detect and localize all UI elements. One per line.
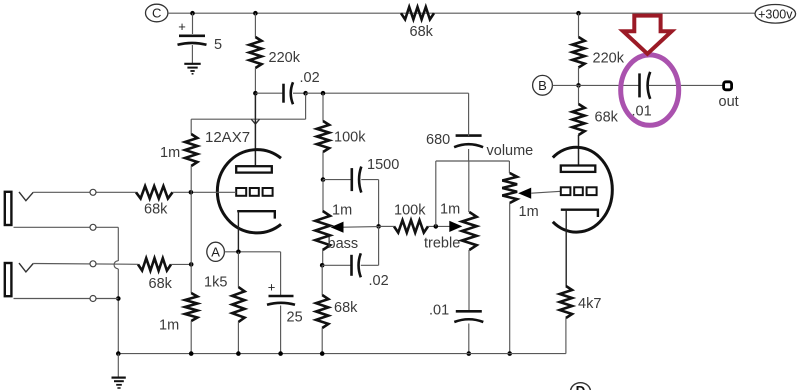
node B terminal xyxy=(533,75,553,95)
highlight arrow pointing at output cap xyxy=(623,16,672,54)
value label .02 xyxy=(300,70,320,86)
wire 1m R7 bottom lead xyxy=(190,321,192,354)
ground symbol upper-left xyxy=(184,64,200,74)
svg-text:1m: 1m xyxy=(440,202,460,218)
tube V1b plate xyxy=(561,166,596,172)
value label 100k xyxy=(334,130,366,146)
capacitor C5 .02 bass xyxy=(322,253,361,277)
capacitor C8 .01 output coupling xyxy=(640,72,651,99)
out terminal xyxy=(724,82,732,90)
wire 25uF top lead xyxy=(280,252,282,296)
jack J1 sleeve contact wire xyxy=(14,226,119,228)
wire cathode lead V1a xyxy=(237,211,239,252)
svg-text:680: 680 xyxy=(426,132,450,148)
value label 1m xyxy=(160,145,180,161)
wire bass pot top lead xyxy=(322,180,324,211)
svg-text:1m: 1m xyxy=(160,145,180,161)
wire 1k5 top lead xyxy=(237,252,239,287)
wire filter cap to ground xyxy=(191,45,193,63)
junction dot grid node ch1 xyxy=(189,190,194,195)
wire treble pot bottom lead xyxy=(468,250,470,311)
resistor R1 220k xyxy=(249,37,261,68)
jack J2 body xyxy=(5,263,12,296)
tube V1a envelope xyxy=(217,150,281,233)
value label .01 xyxy=(632,104,652,120)
wire cap output drop xyxy=(305,93,307,119)
svg-text:220k: 220k xyxy=(269,50,301,66)
svg-text:100k: 100k xyxy=(394,203,426,219)
resistor R5 220k plate xyxy=(572,37,584,68)
wire 100k slope bottom lead xyxy=(322,152,324,180)
svg-text:220k: 220k xyxy=(593,51,625,67)
svg-text:treble: treble xyxy=(424,236,460,252)
wire cap C2 output xyxy=(293,92,306,94)
value label 68k xyxy=(410,24,434,40)
label out xyxy=(719,94,739,110)
grid entry tick V1a xyxy=(251,119,259,124)
junction dot rail at 68k tail xyxy=(320,351,325,356)
junction dot ch2 node xyxy=(189,262,194,267)
wire tone feed to 680 cap corner xyxy=(306,92,469,94)
junction dot rail at sleeve bus xyxy=(116,351,121,356)
value label 1m xyxy=(332,203,352,219)
wire sleeve bus vertical upper xyxy=(117,227,119,261)
svg-text:4k7: 4k7 xyxy=(578,296,601,312)
wire 100k to treble wiper xyxy=(379,225,450,227)
capacitor C1 5uF xyxy=(178,19,207,45)
jack J2 tip contact xyxy=(19,263,33,272)
wire bass pot bottom lead xyxy=(322,250,324,265)
value label 1m xyxy=(519,204,539,220)
resistor R8 1k5 cathode xyxy=(232,287,244,322)
junction dot rail at 1m R7 xyxy=(189,351,194,356)
tube V1a plate xyxy=(236,166,272,172)
capacitor C6 680 treble cap xyxy=(454,136,483,148)
svg-text:bass: bass xyxy=(328,236,359,252)
wire treble pot top lead xyxy=(468,161,470,212)
value label .02 xyxy=(369,273,389,289)
jack J1 body xyxy=(5,192,12,225)
terminal circle J2 sleeve xyxy=(90,296,96,302)
wire plate lead V1b xyxy=(578,135,580,166)
junction dot rail at 1k5 xyxy=(236,351,241,356)
wire 4k7 bottom lead xyxy=(565,318,567,354)
wire ground stem lower-left xyxy=(117,354,119,377)
wire hop over channel-2 line xyxy=(114,261,118,269)
resistor R10 68k tail xyxy=(316,295,328,328)
capacitor C4 1500 treble xyxy=(323,167,361,193)
capacitor C7 .01 tone xyxy=(454,311,483,322)
wire bottom ground rail xyxy=(118,353,566,355)
svg-text:A: A xyxy=(211,244,220,259)
junction dot treble wiper node xyxy=(434,224,439,229)
wire .02 to riser xyxy=(361,226,379,265)
value label 100k xyxy=(394,203,426,219)
potentiometer VR3 1m volume xyxy=(502,173,517,203)
wire 68k ch2 to junction xyxy=(171,263,191,265)
power terminal +300v xyxy=(755,5,796,24)
value label .01 xyxy=(429,303,449,319)
junction dot top rail at 220k R1 xyxy=(253,11,258,16)
svg-text:B: B xyxy=(538,78,547,93)
svg-text:25: 25 xyxy=(287,310,303,326)
resistor R12 68k grid feed xyxy=(572,104,584,135)
value label 1500 xyxy=(367,157,399,173)
capacitor C2 .02 coupling xyxy=(255,82,293,104)
wire 25uF bottom lead xyxy=(280,306,282,355)
wire 1k5 bottom lead xyxy=(237,322,239,354)
svg-text:1500: 1500 xyxy=(367,157,399,173)
value label 25 xyxy=(287,310,303,326)
svg-text:1m: 1m xyxy=(159,318,179,334)
node C supply terminal xyxy=(146,4,168,22)
wire jack J1 tip line xyxy=(33,191,136,193)
svg-text:.01: .01 xyxy=(429,303,449,319)
svg-text:1m: 1m xyxy=(519,204,539,220)
label volume xyxy=(487,143,534,159)
resistor R3 68k grid stopper ch2 xyxy=(138,258,171,270)
terminal circle J2 tip xyxy=(90,261,96,267)
wire 220k R1 to plate node xyxy=(254,68,256,93)
jack J2 sleeve contact wire xyxy=(14,298,119,300)
wire 680 tee left riser xyxy=(436,161,510,226)
svg-text:C: C xyxy=(152,6,161,21)
potentiometer VR1 1m bass xyxy=(315,211,330,250)
wire 1500 output corner xyxy=(361,180,378,227)
node A terminal xyxy=(207,242,225,261)
svg-text:volume: volume xyxy=(487,143,534,159)
jack J1 tip contact xyxy=(19,192,33,201)
svg-text:68k: 68k xyxy=(149,276,173,292)
resistor R9 100k slope xyxy=(317,121,329,152)
value label 5 xyxy=(214,37,222,53)
resistor R6 1m grid leak upper xyxy=(185,134,197,166)
tube V1b cathode xyxy=(561,210,598,217)
terminal circle J1 sleeve xyxy=(90,224,96,230)
wire plate lead V1a xyxy=(254,93,256,166)
wire cathode lead V1b xyxy=(565,210,567,286)
junction dot 100k slope takeoff xyxy=(321,91,326,96)
junction dot volume at ground rail xyxy=(507,351,512,356)
value label 1k5 xyxy=(204,275,227,291)
wire 68k R12 top lead xyxy=(578,85,580,104)
wire node B line to output cap xyxy=(579,84,640,86)
wire jack J2 tip line xyxy=(33,263,138,266)
junction dot .01 at ground rail xyxy=(467,351,472,356)
wire 1m R7 top lead xyxy=(190,264,192,293)
wire 68k tail top lead xyxy=(321,265,323,295)
resistor R11 100k treble feed xyxy=(394,220,428,232)
wiper arrow bass xyxy=(331,222,379,233)
junction dot sleeve bus at jack2 xyxy=(116,296,121,301)
value label 68k xyxy=(334,300,358,316)
resistor R13 4k7 cathode xyxy=(560,286,572,318)
svg-text:+: + xyxy=(178,19,186,34)
wire 1m R6 bottom lead xyxy=(190,166,192,192)
value label 220k xyxy=(593,51,625,67)
value label 68k xyxy=(149,276,173,292)
junction dot node B line xyxy=(576,83,581,88)
wire sleeve bus vertical lower xyxy=(117,269,119,354)
wire 68k tail bottom lead xyxy=(321,328,323,354)
svg-text:68k: 68k xyxy=(144,202,168,218)
tube V1b envelope xyxy=(553,147,613,232)
wiper arrow treble xyxy=(449,221,462,232)
svg-text:1k5: 1k5 xyxy=(204,275,227,291)
junction dot plate node V1a xyxy=(253,91,258,96)
wire horizontal grid return y119 xyxy=(191,118,305,120)
ground symbol lower-left xyxy=(112,378,126,388)
terminal circle J1 tip xyxy=(90,189,96,195)
wire volume pot top lead xyxy=(508,161,510,173)
wire 680 top lead xyxy=(468,93,470,136)
junction dot bass bottom node xyxy=(320,263,325,268)
wire channel tie vertical xyxy=(190,192,192,264)
wire 220k R5 top lead xyxy=(578,13,580,37)
junction dot top rail at 220k R5 xyxy=(576,11,581,16)
value label 68k xyxy=(595,110,619,126)
resistor R4 68k (plate supply dropper) xyxy=(401,7,434,19)
junction dot bass wiper node xyxy=(376,224,381,229)
wire 220k R1 top lead xyxy=(254,13,256,37)
potentiometer VR2 1m treble xyxy=(462,212,477,250)
wire output cap to out terminal xyxy=(649,84,723,86)
wire 68k to grid V1a xyxy=(173,191,237,193)
value label 1m xyxy=(440,202,460,218)
junction dot top rail at filter cap xyxy=(190,11,195,16)
value label 68k xyxy=(144,202,168,218)
svg-text:12AX7: 12AX7 xyxy=(205,129,250,146)
svg-text:+: + xyxy=(268,280,276,295)
svg-text:.02: .02 xyxy=(369,273,389,289)
junction dot cathode node A xyxy=(236,250,241,255)
wire 1m R6 top corner xyxy=(190,119,192,134)
wire node B to plate node xyxy=(552,84,578,86)
tube V1b grid xyxy=(561,187,597,195)
wire 100k slope top lead xyxy=(322,93,324,121)
label 12AX7 xyxy=(205,129,250,146)
value label 1m xyxy=(159,318,179,334)
wire top supply rail xyxy=(168,12,755,14)
wire node A to cathode junction xyxy=(224,251,280,253)
wire filter cap top lead xyxy=(192,13,194,34)
resistor R2 68k grid stopper ch1 xyxy=(136,186,173,198)
wiper arrow volume xyxy=(518,188,561,199)
label treble xyxy=(424,236,460,252)
svg-text:5: 5 xyxy=(214,37,222,53)
node D terminal (cut off at bottom edge) xyxy=(571,383,591,390)
junction dot slope/bass node xyxy=(321,177,326,182)
value label 680 xyxy=(426,132,450,148)
wire volume pot bottom lead xyxy=(509,203,511,354)
wire 680 bottom lead xyxy=(468,149,470,161)
value label 4k7 xyxy=(578,296,601,312)
wire .01 bottom lead xyxy=(468,324,470,354)
svg-text:68k: 68k xyxy=(334,300,358,316)
wire 220k R5 to node B xyxy=(578,68,580,86)
label bass xyxy=(328,236,359,252)
highlight ellipse around output cap xyxy=(621,55,679,125)
tube V1a grid xyxy=(236,188,272,196)
svg-text:.02: .02 xyxy=(300,70,320,86)
svg-text:out: out xyxy=(719,94,739,110)
value label 220k xyxy=(269,50,301,66)
svg-text:68k: 68k xyxy=(410,24,434,40)
resistor R7 1m grid leak lower xyxy=(185,293,197,321)
svg-text:68k: 68k xyxy=(595,110,619,126)
tube V1a cathode xyxy=(237,211,275,218)
svg-text:100k: 100k xyxy=(334,130,366,146)
svg-text:+300v: +300v xyxy=(758,7,793,21)
svg-text:D: D xyxy=(576,384,586,390)
junction dot after C2 xyxy=(303,91,308,96)
capacitor C3 25uF cathode bypass xyxy=(267,280,295,305)
junction dot rail at 25uF xyxy=(278,351,283,356)
svg-text:1m: 1m xyxy=(332,203,352,219)
